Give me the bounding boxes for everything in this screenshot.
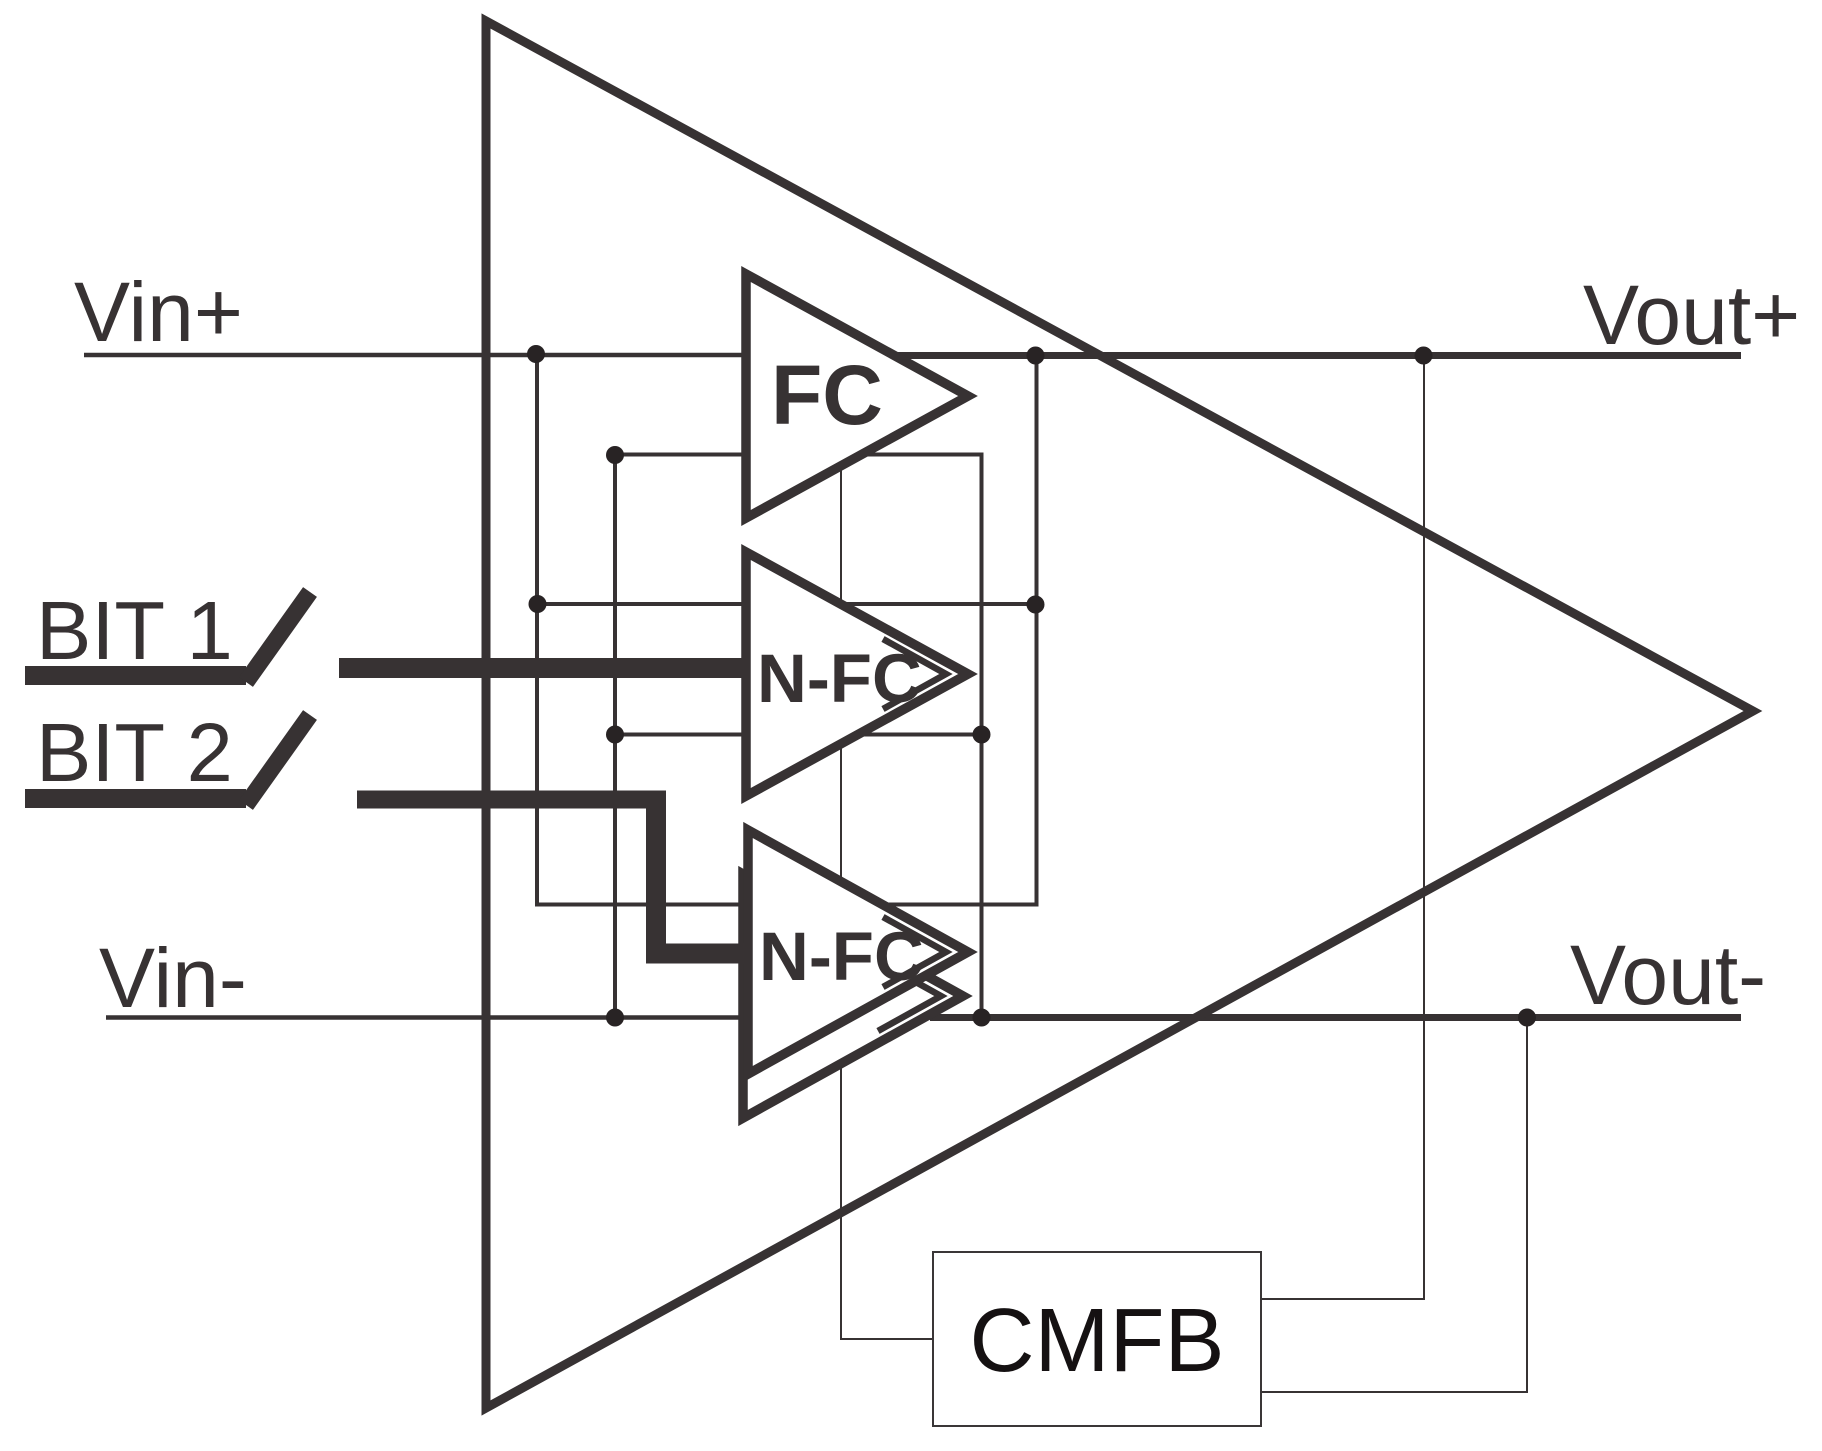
svg-text:N-FC: N-FC	[759, 918, 924, 995]
svg-text:Vout-: Vout-	[1570, 928, 1766, 1022]
switch BIT1 contact bar	[25, 666, 246, 685]
svg-text:N-FC: N-FC	[757, 640, 922, 717]
junction dot y455 / x615	[606, 446, 624, 464]
wire N-FC lower input (y=734.5)	[615, 733, 984, 737]
wire CMFB to Vout- thin vertical (x=1527)	[1526, 1018, 1528, 1393]
wire Vout- thick output segment	[930, 1014, 1741, 1021]
wire BIT1 thick bus to N-FC1	[339, 658, 748, 678]
wire FC lower input (y=455)	[615, 453, 984, 457]
svg-text:Vin-: Vin-	[99, 931, 247, 1025]
svg-text:Vout+: Vout+	[1583, 268, 1800, 362]
slice amplifier N-FC1 (middle)	[746, 552, 968, 796]
wire BIT2 thick bus vertical jog	[646, 791, 666, 964]
slice amplifier N-FC2 front triangle	[748, 830, 968, 1074]
block CMFB	[933, 1252, 1261, 1426]
slice amplifier N-FC2 stacked back triangle	[743, 874, 963, 1118]
switch BIT2 lever arm	[246, 715, 310, 805]
wire Vout+ thick output segment	[895, 352, 1741, 359]
wire vertical FC output bus (x=1036)	[1035, 356, 1039, 907]
wire horizontal lower link (y=904)	[535, 903, 1039, 907]
wire CMFB to Vout+ thin vertical (x=1424)	[1423, 357, 1425, 1300]
switch BIT1 lever arm	[246, 592, 310, 682]
junction dot y734 / right bus	[973, 726, 991, 744]
svg-text:BIT 2: BIT 2	[36, 706, 233, 799]
junction dot Vout- / CMFB tap	[1518, 1009, 1536, 1027]
wire horizontal mid link (y=604)	[537, 602, 1037, 606]
junction dot Vin+ / x537	[527, 345, 545, 363]
wire CMFB lower right horizontal (y=1392)	[1261, 1391, 1528, 1393]
junction dot Vin- / right bus	[973, 1009, 991, 1027]
junction dot Vout+ / CMFB tap	[1415, 347, 1433, 365]
junction dot y734 / x615	[606, 726, 624, 744]
junction dot y604 / x1036	[1027, 596, 1045, 614]
wire vertical x=615	[613, 455, 617, 1018]
junction dot y604 / x537	[529, 595, 547, 613]
wire BIT2 thick bus horizontal	[357, 791, 663, 809]
wire Vin- / Vout- bottom rail	[106, 1015, 1741, 1020]
wire CMFB sense horizontal into box	[840, 1338, 933, 1340]
svg-text:BIT 1: BIT 1	[36, 584, 233, 677]
wire BIT2 thick bus into N-FC2	[646, 944, 748, 964]
junction dot FC output on Vout+	[1027, 347, 1045, 365]
svg-text:Vin+: Vin+	[74, 265, 243, 359]
svg-text:FC: FC	[771, 348, 883, 442]
slice amplifier FC	[746, 274, 968, 518]
wire Vin+ / Vout+ top rail	[84, 353, 1741, 358]
switch BIT2 contact bar	[25, 789, 246, 808]
svg-text:CMFB: CMFB	[970, 1291, 1225, 1391]
junction dot Vin- / x615	[606, 1009, 624, 1027]
wire vertical right bus (x=981.5)	[980, 453, 984, 1018]
wire CMFB sense thin vertical (x=841)	[840, 470, 842, 1340]
wire CMFB upper right horizontal (y=1299)	[1261, 1298, 1425, 1300]
wire vertical from Vin+ node down (x=537)	[535, 353, 539, 907]
op-amp A1 main amplifier triangle	[486, 21, 1753, 1408]
